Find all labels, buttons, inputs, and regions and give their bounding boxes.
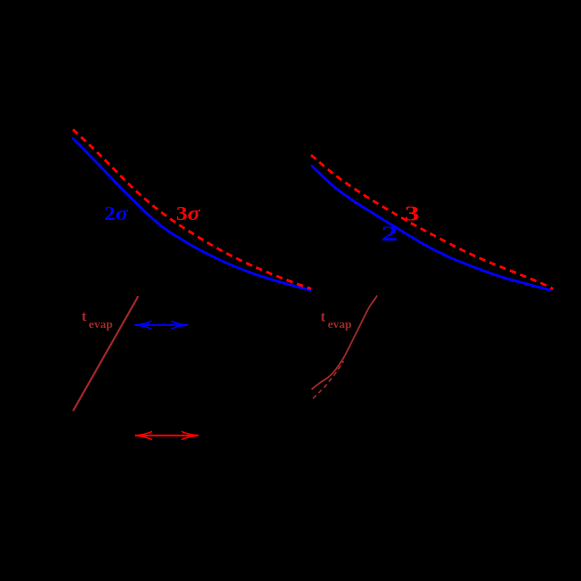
curve dark-red solid t_evap right panel [312, 296, 378, 390]
curve dark-red dashed companion right panel [313, 361, 344, 399]
svg-text:evap: evap [328, 317, 352, 331]
line dark-red t_evap left panel [73, 296, 138, 411]
arrow red double-headed left panel [135, 432, 199, 440]
svg-text:3: 3 [405, 202, 420, 226]
curve blue 2 right panel [312, 166, 550, 290]
svg-text:2: 2 [381, 222, 398, 246]
svg-text:3σ: 3σ [176, 203, 201, 225]
svg-text:t: t [321, 310, 326, 326]
curve blue 2-sigma left panel [73, 139, 310, 291]
curve red dashed 3 right panel [311, 155, 553, 289]
svg-text:evap: evap [89, 317, 113, 331]
svg-text:t: t [82, 309, 87, 325]
svg-text:2σ: 2σ [104, 203, 129, 225]
curve red dashed 3-sigma left panel [73, 130, 311, 289]
arrow blue double-headed left panel [135, 321, 189, 329]
